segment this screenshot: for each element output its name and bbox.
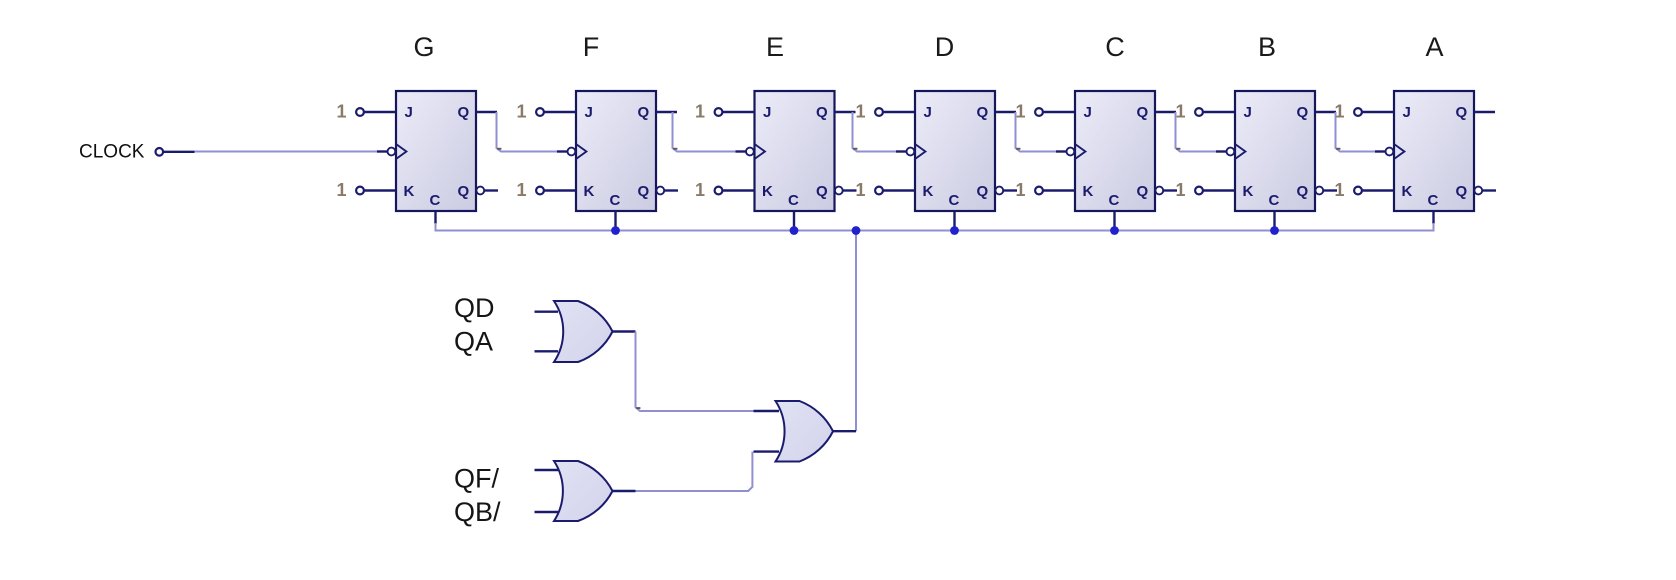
svg-text:Q: Q: [458, 183, 470, 200]
junction dot at C of F: [611, 226, 620, 235]
K pin stub (C): [1043, 189, 1075, 191]
U3 bottom input stub: [754, 450, 780, 452]
terminal circle (K input of A): [1354, 187, 1362, 195]
terminal circle (K input of F): [536, 187, 544, 195]
svg-text:1: 1: [695, 180, 705, 200]
J pin stub (B): [1203, 111, 1235, 113]
U2 output stub: [613, 490, 636, 492]
QB/ input stub: [535, 511, 559, 513]
or-gate U1 (QD,QA): [554, 301, 613, 362]
flip-flop G: [364, 91, 498, 224]
svg-text:J: J: [405, 104, 413, 121]
svg-text:G: G: [413, 32, 434, 62]
K pin stub (F): [544, 189, 576, 191]
clock pin stub (E): [736, 150, 746, 152]
wire CLOCK to CLK of G: [195, 151, 378, 153]
QF/ input stub: [535, 469, 559, 471]
svg-text:E: E: [766, 32, 784, 62]
terminal circle (J input of C): [1035, 108, 1043, 116]
C pin stub (B): [1273, 211, 1275, 231]
svg-text:J: J: [1084, 104, 1092, 121]
clock pin stub (F): [557, 150, 567, 152]
svg-text:C: C: [1105, 32, 1125, 62]
J pin stub (E): [723, 111, 755, 113]
or-gate U2 (QF/,QB/): [554, 461, 613, 521]
svg-text:K: K: [404, 183, 415, 200]
svg-text:C: C: [788, 192, 799, 209]
Q-bar bubble (C): [1155, 187, 1163, 195]
junction dot at C of C: [1110, 226, 1119, 235]
svg-text:C: C: [1109, 192, 1120, 209]
wire U1 output to U3 top input: [636, 332, 754, 412]
svg-text:J: J: [763, 104, 771, 121]
K pin stub (A): [1362, 189, 1394, 191]
terminal circle (K input of E): [715, 187, 723, 195]
svg-text:Q: Q: [1137, 104, 1149, 121]
Q output stub (D): [995, 111, 1016, 113]
svg-text:1: 1: [337, 180, 347, 200]
Q-bar output stub (G): [484, 189, 498, 191]
svg-text:C: C: [610, 192, 621, 209]
clock edge chevron (C): [1075, 144, 1085, 159]
K pin stub (E): [723, 189, 755, 191]
junction dot at C of D: [950, 226, 959, 235]
junction dot at bus drop: [852, 226, 861, 235]
flip-flop F: [544, 91, 678, 231]
clock edge chevron (B): [1235, 144, 1245, 159]
svg-text:QD: QD: [454, 293, 495, 323]
clock pin stub (B): [1216, 150, 1226, 152]
Q-bar output stub (C): [1163, 189, 1177, 191]
C pin stub (D): [953, 211, 955, 231]
clock bubble (C): [1067, 148, 1075, 156]
K pin stub (G): [364, 189, 396, 191]
svg-text:J: J: [585, 104, 593, 121]
svg-text:F: F: [583, 32, 600, 62]
wire Q of D to CLK of C: [1016, 112, 1057, 152]
svg-text:K: K: [923, 183, 934, 200]
Q output stub (E): [835, 111, 856, 113]
terminal circle (J input of G): [356, 108, 364, 116]
flip-flop C: [1043, 91, 1177, 231]
junction dot at C of B: [1270, 226, 1279, 235]
Q-bar bubble (G): [476, 187, 484, 195]
clock bubble (F): [568, 148, 576, 156]
svg-text:CLOCK: CLOCK: [79, 142, 145, 163]
terminal circle (J input of E): [715, 108, 723, 116]
clock bubble (A): [1386, 148, 1394, 156]
U3 output stub: [833, 430, 856, 432]
CLOCK terminal stub: [163, 151, 194, 153]
svg-text:K: K: [584, 183, 595, 200]
svg-text:1: 1: [1016, 180, 1026, 200]
C pin stub (G): [434, 211, 436, 224]
J pin stub (G): [364, 111, 396, 113]
clock edge chevron (E): [755, 144, 765, 159]
clock bubble (G): [388, 148, 396, 156]
svg-text:K: K: [1243, 183, 1254, 200]
terminal circle (K input of G): [356, 187, 364, 195]
svg-text:1: 1: [856, 180, 866, 200]
Q-bar output stub (F): [664, 189, 678, 191]
clock edge chevron (A): [1394, 144, 1404, 159]
svg-text:K: K: [762, 183, 773, 200]
svg-text:1: 1: [1016, 102, 1026, 122]
svg-text:K: K: [1402, 183, 1413, 200]
svg-text:D: D: [935, 32, 955, 62]
svg-text:C: C: [1269, 192, 1280, 209]
svg-text:Q: Q: [1297, 183, 1309, 200]
svg-text:Q: Q: [638, 183, 650, 200]
svg-text:C: C: [1428, 192, 1439, 209]
Q-bar bubble (F): [656, 187, 664, 195]
terminal circle (J input of A): [1354, 108, 1362, 116]
J pin stub (A): [1362, 111, 1394, 113]
wire C of A down to bus: [1433, 223, 1435, 232]
or-gate U3 (second level): [776, 401, 834, 462]
C pin stub (C): [1113, 211, 1115, 231]
K pin stub (B): [1203, 189, 1235, 191]
terminal circle (J input of B): [1195, 108, 1203, 116]
J pin stub (F): [544, 111, 576, 113]
Q-bar bubble (B): [1315, 187, 1323, 195]
svg-text:J: J: [1244, 104, 1252, 121]
svg-text:Q: Q: [1137, 183, 1149, 200]
svg-text:B: B: [1258, 32, 1276, 62]
svg-text:QA: QA: [454, 327, 493, 357]
wire Q of F to CLK of E: [673, 112, 736, 152]
CLOCK input terminal: [156, 148, 164, 156]
U1 output stub: [613, 330, 636, 332]
clock edge chevron (D): [915, 144, 925, 159]
svg-text:Q: Q: [816, 183, 828, 200]
terminal circle (K input of D): [875, 187, 883, 195]
Q output stub (C): [1155, 111, 1176, 113]
svg-text:Q: Q: [1456, 104, 1468, 121]
clock pin stub (D): [896, 150, 906, 152]
K pin stub (D): [883, 189, 915, 191]
clock pin stub (C): [1056, 150, 1066, 152]
Q output stub (G): [476, 111, 497, 113]
svg-text:J: J: [924, 104, 932, 121]
clock bubble (E): [746, 148, 754, 156]
wire Q of E to CLK of D: [853, 112, 897, 152]
Q-bar output stub (E): [843, 189, 857, 191]
svg-text:QB/: QB/: [454, 497, 501, 527]
svg-text:C: C: [949, 192, 960, 209]
wire clock bus horizontal: [436, 230, 1434, 232]
Q-bar bubble (A): [1474, 187, 1482, 195]
J pin stub (C): [1043, 111, 1075, 113]
C pin stub (A): [1432, 211, 1434, 224]
Q-bar output stub (B): [1323, 189, 1337, 191]
svg-text:1: 1: [517, 180, 527, 200]
svg-text:Q: Q: [458, 104, 470, 121]
Q output stub (F): [656, 111, 677, 113]
Q output stub (B): [1315, 111, 1336, 113]
terminal circle (K input of B): [1195, 187, 1203, 195]
clock edge chevron (G): [396, 144, 406, 159]
svg-text:1: 1: [517, 102, 527, 122]
svg-text:A: A: [1425, 32, 1443, 62]
wire Q of C to CLK of B: [1176, 112, 1217, 152]
wire bus down to OR gate U3 output: [855, 231, 857, 432]
junction dot at C of E: [790, 226, 799, 235]
clock pin stub (A): [1375, 150, 1385, 152]
svg-text:Q: Q: [977, 104, 989, 121]
clock bubble (D): [907, 148, 915, 156]
Q-bar output stub (D): [1003, 189, 1017, 191]
svg-text:1: 1: [856, 102, 866, 122]
terminal circle (J input of F): [536, 108, 544, 116]
QA input stub: [535, 350, 559, 352]
J pin stub (D): [883, 111, 915, 113]
U3 top input stub: [754, 410, 780, 412]
svg-text:1: 1: [337, 102, 347, 122]
terminal circle (J input of D): [875, 108, 883, 116]
svg-text:1: 1: [1335, 180, 1345, 200]
C pin stub (F): [614, 211, 616, 231]
clock bubble (B): [1227, 148, 1235, 156]
QD input stub: [535, 311, 559, 313]
svg-text:1: 1: [1176, 102, 1186, 122]
clock pin stub (G): [377, 150, 387, 152]
svg-text:1: 1: [695, 102, 705, 122]
svg-text:C: C: [430, 192, 441, 209]
terminal circle (K input of C): [1035, 187, 1043, 195]
svg-text:1: 1: [1176, 180, 1186, 200]
svg-text:QF/: QF/: [454, 464, 499, 494]
flip-flop A: [1362, 91, 1496, 224]
wire Q of B to CLK of A: [1336, 112, 1376, 152]
Q-bar bubble (E): [835, 187, 843, 195]
svg-text:Q: Q: [1297, 104, 1309, 121]
flip-flop D: [883, 91, 1017, 231]
svg-text:Q: Q: [816, 104, 828, 121]
C pin stub (E): [793, 211, 795, 231]
svg-text:Q: Q: [977, 183, 989, 200]
flip-flop B: [1203, 91, 1337, 231]
wire C of G down to bus: [435, 223, 437, 232]
Q-bar bubble (D): [995, 187, 1003, 195]
svg-text:K: K: [1083, 183, 1094, 200]
Q output stub (A): [1474, 111, 1495, 113]
wire Q of G to CLK of F: [497, 112, 558, 152]
wire U2 output to U3 bottom input: [636, 452, 753, 491]
Q-bar output stub (A): [1482, 189, 1496, 191]
clock edge chevron (F): [576, 144, 586, 159]
svg-text:J: J: [1403, 104, 1411, 121]
svg-text:Q: Q: [638, 104, 650, 121]
svg-text:Q: Q: [1456, 183, 1468, 200]
flip-flop E: [723, 91, 857, 231]
